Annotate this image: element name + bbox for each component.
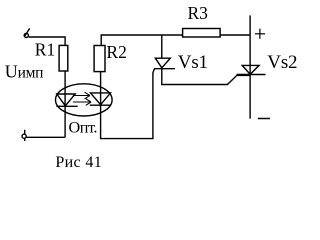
wire bottom terminal to LED branch (26, 136, 65, 138)
svg-text:R3: R3 (188, 3, 209, 23)
resistor R3 (183, 29, 221, 38)
resistor R2 (94, 46, 105, 72)
svg-text:R2: R2 (106, 42, 126, 62)
label + (255, 29, 265, 39)
optocoupler LED (left diode) (56, 94, 77, 106)
svg-text:Рис 41: Рис 41 (55, 154, 102, 171)
terminal X1 (top input) (24, 28, 30, 37)
wire plus rail / Vs2 branch (249, 15, 251, 118)
terminal X2 (bottom input) (22, 130, 26, 141)
wire terminal to R1 (29, 37, 65, 45)
optocoupler photodetector (right diode) (90, 93, 111, 105)
wire R2 bottom through photodetector to Vs1 gate (101, 69, 155, 139)
label minus (258, 118, 270, 120)
svg-text:имп: имп (18, 65, 44, 82)
svg-text:Vs2: Vs2 (267, 52, 297, 73)
wire main wire to Vs1 anode (161, 35, 163, 58)
svg-text:Опт.: Опт. (69, 119, 97, 137)
thyristor Vs1 (154, 58, 175, 68)
wire R3 to plus rail (220, 34, 250, 36)
wire R2 riser and main top wire (101, 35, 182, 46)
wire Vs1 cathode to Vs2 gate (162, 69, 250, 85)
svg-text:Vs1: Vs1 (178, 52, 208, 73)
light arrows (73, 92, 91, 105)
wire R1 to bottom rail (64, 71, 66, 137)
resistor R1 (59, 45, 68, 71)
svg-text:U: U (5, 62, 18, 82)
optocoupler ellipse (56, 84, 113, 116)
svg-text:R1: R1 (35, 39, 55, 59)
thyristor Vs2 (237, 65, 266, 74)
